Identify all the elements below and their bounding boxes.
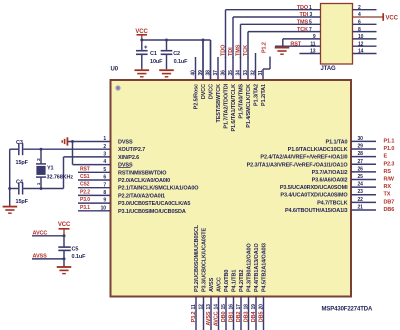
- svg-text:12: 12: [358, 41, 364, 47]
- svg-text:RS: RS: [384, 169, 392, 175]
- JTAG right pin numbers: [358, 5, 364, 55]
- svg-text:P3.2: P3.2: [191, 311, 197, 322]
- svg-text:33: 33: [243, 70, 249, 76]
- wire TDO vertical to pin36: [225, 10, 227, 58]
- wire JTAG pin1 TDO to U0 pin36: [226, 9, 321, 11]
- svg-text:VCC: VCC: [135, 29, 148, 35]
- wire JTAG pin13 stub: [299, 53, 320, 55]
- svg-text:27: 27: [358, 159, 364, 165]
- ground below C1: [135, 70, 150, 77]
- svg-text:RST: RST: [80, 166, 90, 172]
- svg-text:P4.6/TBOUTH/A15/OA1I3: P4.6/TBOUTH/A15/OA1I3: [285, 208, 348, 214]
- svg-text:7: 7: [309, 27, 312, 33]
- wire net CS1 to pin 6: [78, 179, 111, 181]
- net label TCK + pin7 number: [297, 27, 312, 33]
- svg-text:DVCC: DVCC: [201, 84, 207, 99]
- wire AVCC: [32, 236, 64, 247]
- svg-text:DVCC: DVCC: [209, 84, 215, 99]
- net label RST + pin11 number: [290, 41, 315, 47]
- svg-text:6: 6: [358, 20, 361, 26]
- svg-text:28: 28: [358, 151, 364, 157]
- svg-text:1: 1: [36, 182, 42, 185]
- junction on VCC rail at C2: [165, 39, 168, 42]
- wire net P2.2 to pin 8: [78, 194, 111, 196]
- svg-text:20: 20: [258, 304, 264, 310]
- svg-text:C3: C3: [16, 140, 23, 146]
- wire net RST to pin 5: [78, 171, 111, 173]
- svg-text:13: 13: [310, 49, 316, 55]
- svg-text:P3.4/UCA0TXD/UCA0SIMO: P3.4/UCA0TXD/UCA0SIMO: [280, 193, 348, 199]
- svg-text:R/W: R/W: [384, 177, 395, 183]
- U0 logo mark: [115, 85, 120, 90]
- svg-text:17: 17: [236, 304, 242, 310]
- junction crystal top: [40, 148, 43, 151]
- svg-text:P2.3/TA1/A3/VREF-/VeREF-/OA1I1: P2.3/TA1/A3/VREF-/VeREF-/OA1I1/OA1O: [247, 162, 349, 168]
- wire TDI vertical to pin35: [232, 17, 234, 58]
- U0 left pin numbers 1-10: [101, 136, 107, 211]
- wire P1.2 net stub to pin31: [263, 57, 270, 70]
- svg-text:34: 34: [235, 70, 241, 76]
- svg-text:C5: C5: [72, 246, 79, 252]
- svg-text:P3.5/UCA0RXD/UCA0SOMI: P3.5/UCA0RXD/UCA0SOMI: [280, 185, 348, 191]
- svg-text:29: 29: [358, 144, 364, 150]
- svg-text:16: 16: [228, 304, 234, 310]
- svg-text:31: 31: [258, 70, 264, 76]
- svg-text:P4.3/TB0A12/OA0O: P4.3/TB0A12/OA0O: [247, 242, 253, 292]
- wire AVSS: [32, 258, 64, 260]
- svg-text:P3.6/A6/OA0I2: P3.6/A6/OA0I2: [312, 178, 348, 184]
- svg-text:DB0: DB0: [221, 311, 227, 322]
- wire XOUT pin2 to crystal/C3: [23, 148, 110, 150]
- svg-text:AVCC: AVCC: [33, 231, 48, 237]
- svg-text:P2.3: P2.3: [384, 161, 395, 167]
- U0 bottom pin numbers 11-20: [191, 304, 264, 310]
- JTAG right pin stub wires 2-14: [353, 10, 377, 54]
- svg-text:P4.4/TB1A13/OA1O: P4.4/TB1A13/OA1O: [254, 242, 260, 292]
- svg-text:AVSS: AVSS: [209, 277, 215, 292]
- svg-text:19: 19: [251, 304, 257, 310]
- svg-text:DB4: DB4: [251, 310, 257, 322]
- svg-text:P3.7/A7/OA1I2: P3.7/A7/OA1I2: [312, 170, 348, 176]
- right side net labels P1.1 P1.0 E P2.3 RS R/W RX TX DB7 DB6: [384, 138, 395, 213]
- U0 bottom pin stub wires 11-20: [196, 297, 264, 330]
- capacitor C5 0.1uF: [58, 246, 86, 266]
- svg-text:RST: RST: [290, 41, 301, 47]
- svg-text:C4: C4: [16, 180, 24, 186]
- junction on VCC rail at C1: [140, 39, 143, 42]
- wire DVSS pin1: [68, 141, 111, 143]
- svg-text:13: 13: [206, 304, 212, 310]
- svg-text:DB5: DB5: [258, 311, 264, 322]
- svg-text:DB2: DB2: [236, 311, 242, 322]
- wire JTAG pin7 TCK to U0 pin33: [248, 31, 321, 33]
- svg-text:0.1uF: 0.1uF: [174, 59, 189, 65]
- svg-text:U0: U0: [111, 67, 119, 73]
- svg-text:21: 21: [358, 204, 364, 210]
- svg-text:11: 11: [310, 41, 315, 47]
- svg-text:VCC: VCC: [386, 16, 399, 22]
- junction C4 ground leg: [8, 187, 11, 190]
- svg-text:P1.7/TA2/TDO/TDI: P1.7/TA2/TDO/TDI: [224, 83, 230, 128]
- svg-text:DB6: DB6: [384, 207, 395, 213]
- svg-text:JTAG: JTAG: [321, 66, 337, 72]
- ground at JTAG pin9: [275, 48, 290, 55]
- svg-text:P4.1/TB1: P4.1/TB1: [232, 270, 238, 292]
- U0 right pin function labels: [247, 139, 349, 214]
- U0 bottom pin function labels: [194, 224, 268, 292]
- svg-text:3: 3: [310, 12, 313, 18]
- svg-text:TDO: TDO: [297, 5, 309, 11]
- junction AVSS: [63, 257, 66, 260]
- svg-text:TDI: TDI: [228, 47, 234, 56]
- svg-text:P3.2/UCB0SOMI/UCB0SCL: P3.2/UCB0SOMI/UCB0SCL: [194, 224, 200, 292]
- svg-text:15pF: 15pF: [16, 160, 29, 166]
- svg-text:40: 40: [190, 70, 196, 76]
- svg-text:P1.4/SMCLK/TCK: P1.4/SMCLK/TCK: [246, 84, 252, 128]
- wire JTAG pin5 TMS to U0 pin34: [241, 23, 321, 25]
- capacitor C2 0.1uF: [161, 40, 188, 69]
- svg-text:32: 32: [250, 70, 256, 76]
- svg-text:P1.6/TA1/TDI/TCLK: P1.6/TA1/TDI/TCLK: [231, 84, 237, 132]
- svg-text:35: 35: [228, 70, 234, 76]
- svg-text:P3.3/UCB0CLK/UCA0STE: P3.3/UCB0CLK/UCA0STE: [202, 227, 208, 292]
- svg-text:C2: C2: [173, 51, 180, 57]
- svg-text:P4.0/TB0: P4.0/TB0: [224, 270, 230, 292]
- U0 top pin stub wires 40-31: [196, 40, 264, 80]
- svg-text:9: 9: [313, 34, 316, 40]
- svg-text:5: 5: [309, 20, 312, 26]
- crystal Y1 32.768KHz: [36, 149, 74, 188]
- power flag VCC analog: [58, 222, 71, 236]
- svg-text:TMS: TMS: [297, 20, 309, 26]
- svg-text:30: 30: [358, 136, 364, 142]
- svg-text:P3.1: P3.1: [80, 205, 90, 211]
- U0 top pin function labels: [194, 83, 268, 131]
- svg-text:15: 15: [221, 304, 227, 310]
- svg-text:0.1uF: 0.1uF: [72, 254, 87, 260]
- wire JTAG pin9 to ground: [283, 39, 321, 48]
- junction AVCC: [63, 234, 66, 237]
- svg-text:2: 2: [358, 5, 361, 11]
- svg-text:32.768KHz: 32.768KHz: [47, 175, 74, 181]
- wire net P3.0 to pin 9: [78, 202, 111, 204]
- svg-text:25: 25: [358, 174, 364, 180]
- svg-text:DB3: DB3: [243, 311, 249, 322]
- wire DVSS pin4 up to pin1 net: [73, 142, 111, 165]
- svg-text:P4.5/TB2A14/OA0I3: P4.5/TB2A14/OA0I3: [262, 243, 268, 292]
- svg-text:AVSS: AVSS: [206, 311, 212, 326]
- wire TCK vertical to pin33: [247, 32, 249, 58]
- ground below C5: [57, 267, 72, 274]
- svg-text:P3.1/UCB0SIMO/UCB0SDA: P3.1/UCB0SIMO/UCB0SDA: [118, 209, 186, 215]
- svg-text:RX: RX: [384, 184, 392, 190]
- svg-text:P1.2/TA1: P1.2/TA1: [261, 84, 267, 106]
- svg-text:P2.4/TA2/A4/VREF+/VeREF+/OA1I0: P2.4/TA2/A4/VREF+/VeREF+/OA1I0: [260, 155, 347, 161]
- power flag VCC at JTAG pin4: [383, 13, 398, 21]
- wire JTAG pin4 to VCC: [353, 16, 384, 18]
- svg-text:DB1: DB1: [228, 311, 234, 322]
- U0 top pin numbers 40-31: [190, 70, 263, 76]
- svg-text:36: 36: [220, 70, 226, 76]
- svg-text:CS2: CS2: [80, 182, 90, 188]
- svg-text:23: 23: [358, 189, 364, 195]
- svg-text:22: 22: [358, 197, 364, 203]
- U0 right pin numbers 30-21: [358, 136, 364, 211]
- junction DVSS net: [71, 140, 74, 143]
- svg-text:P1.5/TA0/TMS: P1.5/TA0/TMS: [239, 84, 245, 119]
- svg-text:TEST/SBWTCK: TEST/SBWTCK: [216, 84, 222, 123]
- svg-text:TDO: TDO: [220, 44, 226, 56]
- wire JTAG pin11 RST: [275, 45, 321, 47]
- svg-text:P2.2: P2.2: [80, 189, 90, 195]
- net label TDO + pin1 number: [297, 5, 312, 11]
- wire ground leg of C3/C4: [9, 149, 11, 206]
- wire VCC rail to DVCC pins: [142, 40, 211, 80]
- svg-text:MSP430F2274TDA: MSP430F2274TDA: [322, 307, 373, 313]
- IC U0 MSP430F2274 body: [111, 80, 352, 297]
- ground rotated at pin1: [62, 137, 67, 145]
- svg-text:P1.3/TA2: P1.3/TA2: [254, 84, 260, 106]
- svg-text:2: 2: [36, 158, 42, 161]
- wire net CS2 to pin 7: [78, 187, 111, 189]
- svg-text:XOUT/P2.7: XOUT/P2.7: [118, 147, 145, 153]
- svg-text:8: 8: [358, 27, 361, 33]
- svg-text:AVSS: AVSS: [33, 254, 48, 260]
- ground below C3/C4: [3, 207, 18, 214]
- junction on VCC rail at pin39: [202, 39, 205, 42]
- svg-text:C1: C1: [150, 51, 157, 57]
- svg-text:4: 4: [358, 12, 361, 18]
- capacitor C1 10uF: [136, 40, 163, 69]
- svg-text:10: 10: [358, 34, 364, 40]
- svg-text:14: 14: [213, 304, 219, 310]
- svg-text:37: 37: [213, 70, 219, 76]
- svg-text:P1.1: P1.1: [384, 138, 395, 144]
- wire TMS vertical to pin34: [240, 24, 242, 58]
- ground below C2: [159, 70, 174, 77]
- svg-text:18: 18: [243, 304, 249, 310]
- connector JTAG body: [321, 4, 353, 65]
- U0 right pin stub wires 30-21: [351, 141, 376, 210]
- svg-text:E: E: [384, 154, 388, 160]
- svg-text:P2.2/TA0/A2/OA0I1: P2.2/TA0/A2/OA0I1: [118, 193, 165, 199]
- svg-text:P1.0: P1.0: [384, 146, 395, 152]
- svg-text:TDI: TDI: [299, 12, 308, 18]
- svg-text:P4.7/TBCLK: P4.7/TBCLK: [317, 200, 348, 206]
- svg-text:XIN/P2.6: XIN/P2.6: [118, 155, 139, 161]
- svg-text:1: 1: [309, 5, 312, 11]
- svg-text:14: 14: [358, 49, 364, 55]
- wire net P3.1 to pin 10: [78, 210, 111, 212]
- svg-text:P1.1/TA0: P1.1/TA0: [326, 139, 348, 145]
- svg-text:P4.2/TB2: P4.2/TB2: [239, 270, 245, 292]
- U0 left pin function labels: [118, 140, 199, 215]
- svg-text:AVCC: AVCC: [217, 277, 223, 292]
- svg-text:Y1: Y1: [47, 165, 54, 171]
- svg-text:P3.0/UCB0STE/UCA0CLK/A5: P3.0/UCB0STE/UCA0CLK/A5: [118, 201, 190, 207]
- svg-text:26: 26: [358, 166, 364, 172]
- svg-text:P2.1/TAINCLK/SMCLK/A1/OA0O: P2.1/TAINCLK/SMCLK/A1/OA0O: [118, 186, 199, 192]
- power flag VCC top: [135, 29, 148, 40]
- svg-text:24: 24: [358, 182, 364, 188]
- svg-text:P1.0/TACLK/ADC10CLK: P1.0/TACLK/ADC10CLK: [288, 147, 348, 153]
- svg-text:11: 11: [191, 304, 197, 309]
- svg-text:AVCC: AVCC: [213, 311, 219, 326]
- svg-text:VCC: VCC: [58, 222, 71, 228]
- bottom net labels P3.2 AVSS AVCC DB0-DB5: [191, 310, 264, 326]
- net label TDI + pin3 number: [299, 12, 312, 18]
- svg-text:TCK: TCK: [297, 27, 308, 33]
- svg-text:P2.5/Rosc: P2.5/Rosc: [194, 84, 200, 109]
- junction crystal bottom: [40, 187, 43, 190]
- svg-text:10uF: 10uF: [150, 59, 163, 65]
- svg-text:TCK: TCK: [243, 45, 249, 56]
- svg-text:TX: TX: [384, 192, 391, 198]
- svg-text:RST/NMI/SBWTDIO: RST/NMI/SBWTDIO: [118, 170, 167, 176]
- svg-text:15pF: 15pF: [16, 199, 29, 205]
- svg-text:12: 12: [198, 304, 204, 310]
- svg-text:CS1: CS1: [80, 174, 90, 180]
- wire JTAG pin3 TDI to U0 pin35: [233, 16, 321, 18]
- svg-text:P1.2: P1.2: [262, 42, 268, 53]
- capacitor C4 15pF: [10, 180, 64, 205]
- svg-text:P3.0: P3.0: [80, 197, 90, 203]
- net label TMS + pin5 number: [297, 20, 312, 26]
- svg-text:DVSS: DVSS: [118, 140, 133, 146]
- capacitor C3 15pF: [10, 140, 29, 166]
- svg-text:TMS: TMS: [235, 44, 241, 56]
- wire XIN pin3 down to crystal/C4: [64, 157, 111, 189]
- svg-text:P2.0/ACLK/A0/OA0I0: P2.0/ACLK/A0/OA0I0: [118, 178, 170, 184]
- svg-text:DB7: DB7: [384, 199, 395, 205]
